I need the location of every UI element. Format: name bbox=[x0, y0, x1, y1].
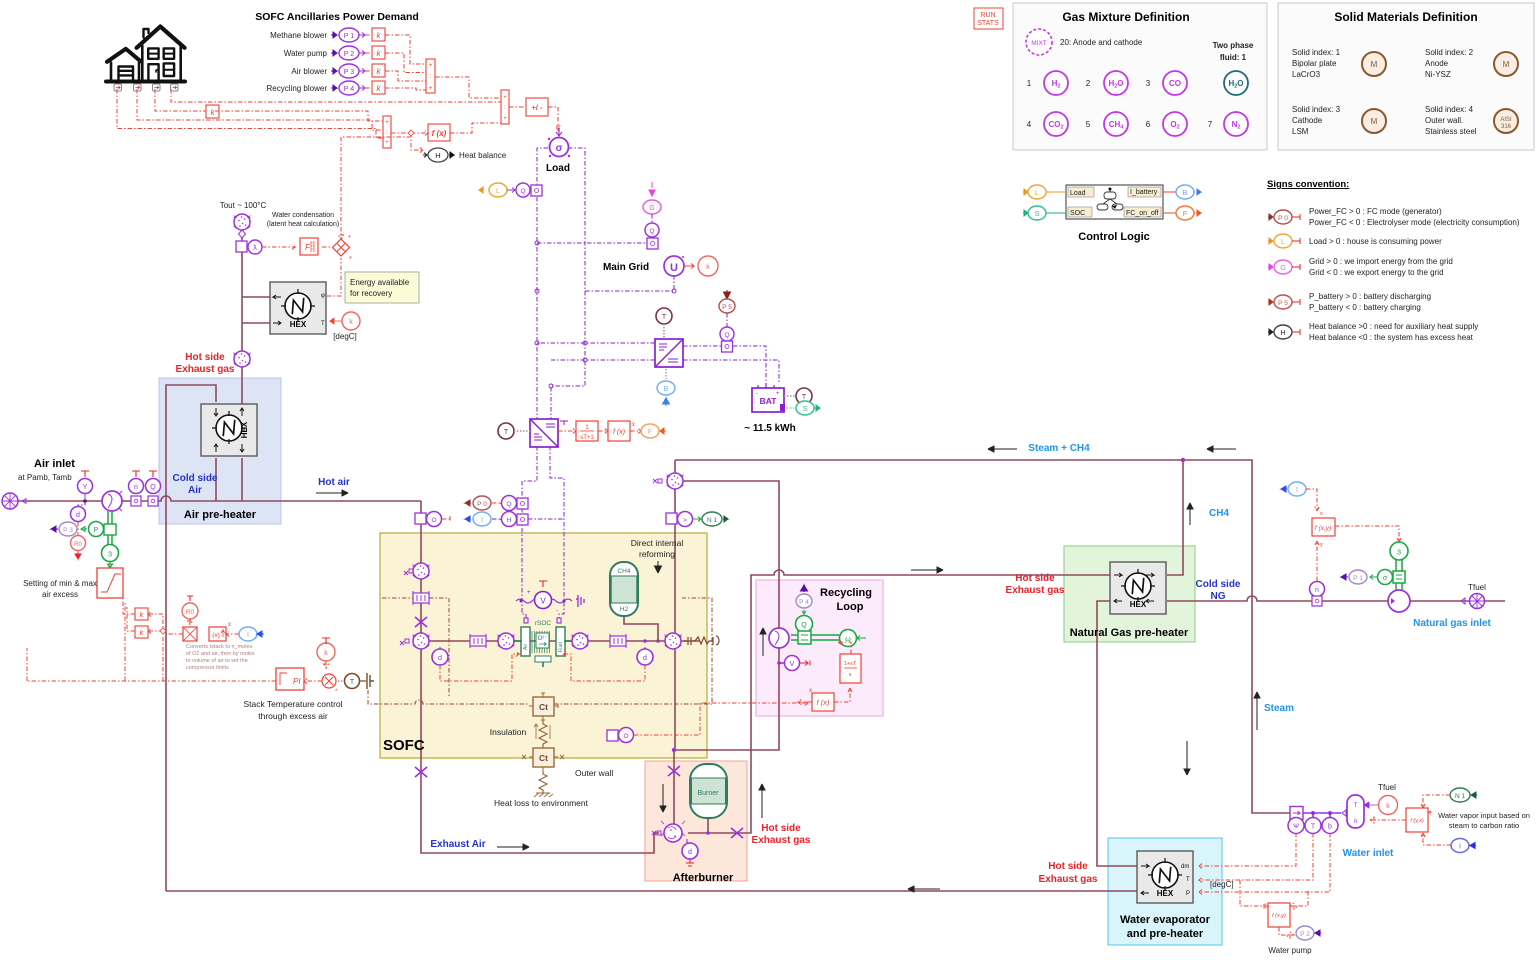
svg-text:F: F bbox=[1183, 209, 1188, 218]
heat exchanger HEX3 NG pre-heater bbox=[1110, 562, 1166, 614]
svg-text:Grid > 0 : we import energy fr: Grid > 0 : we import energy from the gri… bbox=[1309, 257, 1453, 266]
svg-text:σ: σ bbox=[556, 143, 563, 154]
wire: exhaust recovery riser x166 bbox=[166, 385, 216, 891]
green box on column bbox=[104, 524, 116, 535]
svg-text:T: T bbox=[1354, 803, 1358, 809]
svg-text:>: > bbox=[683, 517, 687, 524]
battery BAT bbox=[752, 383, 785, 412]
svg-text:HEX: HEX bbox=[290, 320, 307, 329]
n sensor bbox=[129, 471, 144, 506]
P sensor green bbox=[81, 522, 104, 537]
svg-text:x: x bbox=[1320, 511, 1323, 517]
temperature gain k degC bbox=[330, 312, 360, 330]
svg-text:AISI: AISI bbox=[1500, 117, 1512, 123]
svg-text:Insulation: Insulation bbox=[490, 727, 527, 737]
wire: load sensor row bbox=[534, 189, 537, 191]
svg-text:T: T bbox=[662, 314, 667, 321]
transfer function block bbox=[558, 421, 598, 441]
svg-text:H2: H2 bbox=[620, 606, 629, 613]
svg-text:Burner: Burner bbox=[697, 790, 719, 797]
gain k blocks row bbox=[372, 28, 385, 94]
svg-text:d: d bbox=[76, 512, 80, 519]
svg-text:STATS: STATS bbox=[977, 20, 999, 27]
svg-text:Fuel: Fuel bbox=[558, 642, 564, 652]
svg-text:Y: Y bbox=[83, 484, 88, 491]
svg-text:-: - bbox=[556, 608, 558, 614]
connector L bbox=[1023, 185, 1066, 199]
water junction box bbox=[1290, 807, 1303, 820]
svg-text:1+sT: 1+sT bbox=[844, 661, 857, 667]
svg-text:ṅ: ṅ bbox=[134, 484, 138, 491]
signal row: N1 on fuel feed bbox=[666, 512, 728, 527]
T sensor inverter1 bbox=[656, 308, 672, 339]
svg-text:f (x): f (x) bbox=[613, 429, 625, 436]
f(x) recycle bbox=[809, 688, 834, 711]
air row pipe + volume bbox=[429, 640, 700, 642]
svg-text:to volume of air to set the: to volume of air to set the bbox=[186, 658, 248, 664]
svg-text:reforming: reforming bbox=[639, 549, 675, 559]
svg-text:+/ -: +/ - bbox=[531, 103, 543, 112]
connector P2 bbox=[1296, 926, 1321, 940]
wire: fuel feed down to SOFC bbox=[675, 460, 779, 750]
NG shaft green bbox=[1396, 558, 1402, 590]
insulation resistor bbox=[534, 720, 552, 756]
sign H bbox=[1268, 325, 1300, 339]
Q sensor green bbox=[796, 616, 813, 633]
wire: final exhaust bottom line bbox=[166, 890, 1137, 892]
svg-text:Heat balance >0 : need for aux: Heat balance >0 : need for auxiliary hea… bbox=[1309, 322, 1478, 331]
svg-text:Exhaust gas: Exhaust gas bbox=[752, 835, 811, 846]
svg-text:Recycling: Recycling bbox=[820, 587, 872, 599]
wire: HEX1 heat to multiplier bbox=[322, 247, 341, 296]
svg-text:*: * bbox=[349, 256, 352, 263]
svg-text:Loop: Loop bbox=[837, 601, 864, 613]
svg-text:x: x bbox=[228, 622, 231, 628]
n sensor NG bbox=[1310, 582, 1325, 607]
svg-text:dm: dm bbox=[1181, 864, 1189, 870]
svg-text:Cathode: Cathode bbox=[1292, 116, 1323, 125]
svg-text:Hot side: Hot side bbox=[761, 823, 801, 834]
sum block 2 bbox=[501, 90, 509, 124]
rSOC stack bbox=[521, 618, 565, 667]
svg-text:Grid < 0 : we export energy to: Grid < 0 : we export energy to the grid bbox=[1309, 268, 1444, 277]
connector B I_battery bbox=[657, 369, 675, 406]
k gain blocks left bbox=[135, 608, 148, 620]
connector B bbox=[1163, 185, 1201, 199]
3 gain green bbox=[102, 545, 119, 569]
water pump f(x,y) bbox=[1268, 903, 1290, 927]
svg-text:V: V bbox=[790, 661, 795, 668]
temp sensor out box bbox=[607, 701, 808, 743]
svg-text:k: k bbox=[324, 650, 328, 657]
Load source bbox=[548, 128, 570, 157]
wire: dm T P prescriptions bbox=[1199, 833, 1330, 895]
svg-text:M: M bbox=[1371, 60, 1378, 69]
svg-text:Tfuel: Tfuel bbox=[1378, 783, 1396, 792]
svg-text:M: M bbox=[1371, 117, 1378, 126]
svg-text:6: 6 bbox=[1146, 120, 1151, 129]
svg-text:Water pump: Water pump bbox=[284, 49, 328, 58]
sign P0 bbox=[1268, 210, 1300, 224]
X valve afterburner out bbox=[731, 828, 743, 838]
svg-text:P: P bbox=[1186, 891, 1190, 897]
svg-text:P 4: P 4 bbox=[799, 599, 809, 606]
svg-text:Exhaust gas: Exhaust gas bbox=[176, 364, 235, 375]
svg-text:+: + bbox=[385, 140, 389, 146]
solid materials panel bbox=[1278, 3, 1534, 150]
svg-text:H: H bbox=[435, 151, 440, 160]
svg-text:3: 3 bbox=[108, 550, 112, 559]
wire: NG control bbox=[1306, 489, 1402, 581]
svg-text:Q: Q bbox=[724, 332, 729, 339]
k setpoint bbox=[317, 638, 335, 668]
R0 source bbox=[182, 596, 198, 625]
signal row: I / H above SOFC bbox=[465, 512, 528, 527]
CH4 reformer tank bbox=[610, 562, 638, 616]
outer wall resistor bbox=[534, 771, 553, 797]
wire: ancillaries red network bbox=[365, 35, 372, 88]
svg-text:Load: Load bbox=[546, 163, 570, 174]
svg-text:G: G bbox=[1280, 265, 1285, 272]
svg-text:f (x,y): f (x,y) bbox=[1315, 525, 1331, 532]
thermal capacitor Ct2 outer wall bbox=[522, 744, 564, 771]
svg-text:P 2: P 2 bbox=[1300, 931, 1310, 938]
X conversion block bbox=[183, 627, 197, 641]
heat balance connector H bbox=[423, 148, 454, 162]
wire: HEX2 to HEX1 vent column bbox=[242, 228, 270, 404]
wire: grid line bbox=[537, 242, 648, 244]
recycle transfer function bbox=[840, 654, 861, 683]
svg-text:f (x): f (x) bbox=[817, 698, 830, 707]
svg-text:(latent heat calculation): (latent heat calculation) bbox=[267, 221, 339, 228]
wire: steam + CH4 header bbox=[675, 460, 1290, 813]
PI controller bbox=[276, 668, 304, 690]
wire: water inlet line bbox=[1303, 812, 1341, 814]
svg-text:4: 4 bbox=[1027, 120, 1032, 129]
svg-text:Ct: Ct bbox=[539, 753, 548, 763]
heat exchanger HEX2 air pre-heater bbox=[201, 404, 257, 456]
svg-text:T: T bbox=[1311, 824, 1316, 831]
svg-text:I: I bbox=[1459, 844, 1461, 851]
connector F bbox=[1163, 206, 1201, 220]
svg-text:Q: Q bbox=[150, 484, 156, 491]
svg-text:through excess air: through excess air bbox=[258, 711, 328, 721]
svg-text:S: S bbox=[803, 406, 808, 413]
svg-text:Solid Materials Definition: Solid Materials Definition bbox=[1334, 10, 1477, 24]
svg-text:Air inlet: Air inlet bbox=[34, 458, 75, 470]
svg-text:P 3: P 3 bbox=[63, 527, 73, 534]
V sensor recycle bbox=[777, 656, 810, 671]
svg-text:*: * bbox=[348, 235, 351, 242]
junction dots bbox=[535, 188, 676, 388]
wire: NG inlet line bbox=[1167, 596, 1505, 601]
signal row: P0 / Q above SOFC bbox=[465, 496, 528, 511]
svg-text:Water pump: Water pump bbox=[1268, 946, 1312, 955]
svg-text:S: S bbox=[1034, 209, 1039, 218]
svg-text:Main Grid: Main Grid bbox=[603, 262, 649, 273]
wire: HEX3 hot out to evaporator bbox=[1097, 601, 1137, 866]
svg-text:O²⁻: O²⁻ bbox=[538, 636, 548, 642]
inverter 1 (grid) bbox=[655, 339, 683, 367]
f(x) block top bbox=[428, 124, 450, 141]
svg-text:P 4: P 4 bbox=[344, 86, 354, 93]
T sensor inverter2 bbox=[498, 423, 530, 439]
svg-text:b: b bbox=[1328, 824, 1332, 831]
svg-text:ṅ: ṅ bbox=[1315, 587, 1319, 594]
signal row: O sensor on air feed bbox=[415, 512, 450, 527]
connector N1 water bbox=[1450, 788, 1477, 802]
battery T + SOC sensors bbox=[784, 388, 812, 404]
house output connectors bbox=[114, 84, 178, 91]
svg-text:N 1: N 1 bbox=[707, 517, 718, 524]
main grid transformer U bbox=[664, 256, 684, 276]
svg-text:B: B bbox=[1182, 188, 1187, 197]
svg-text:Steam: Steam bbox=[1264, 703, 1294, 714]
svg-text:Air: Air bbox=[188, 485, 202, 496]
afterburner zone bbox=[645, 761, 747, 881]
svg-text:Ψ: Ψ bbox=[1293, 824, 1299, 831]
svg-text:+: + bbox=[429, 63, 433, 69]
water source T/n bbox=[1347, 795, 1364, 828]
sign L bbox=[1268, 234, 1300, 248]
svg-text:air excess: air excess bbox=[42, 590, 78, 599]
svg-text:s: s bbox=[849, 672, 852, 678]
svg-text:Air pre-heater: Air pre-heater bbox=[184, 509, 257, 521]
water sensors bbox=[1288, 818, 1304, 834]
MIXT circle bbox=[1026, 29, 1052, 55]
connector L row bbox=[479, 183, 542, 197]
k Tfuel gain bbox=[1364, 796, 1398, 815]
svg-text:y: y bbox=[1320, 542, 1323, 548]
svg-text:Anode: Anode bbox=[1425, 59, 1449, 68]
battery sensing column P5 bbox=[719, 290, 735, 352]
svg-text:d: d bbox=[438, 655, 442, 662]
svg-text:Heat loss to environment: Heat loss to environment bbox=[494, 798, 589, 808]
f(y,x) steam carbon block bbox=[1406, 808, 1432, 832]
svg-text:L: L bbox=[1281, 239, 1285, 246]
svg-text:R0: R0 bbox=[74, 542, 82, 548]
svg-text:O: O bbox=[623, 733, 628, 740]
svg-text:Hot side: Hot side bbox=[1015, 573, 1055, 584]
svg-text:T: T bbox=[802, 394, 807, 401]
svg-text:Two phase: Two phase bbox=[1213, 41, 1254, 50]
svg-text:Setting of min & max: Setting of min & max bbox=[23, 579, 97, 588]
svg-text:Load > 0 : house is consuming: Load > 0 : house is consuming power bbox=[1309, 237, 1442, 246]
temp compare X bbox=[304, 674, 338, 695]
svg-text:MIXT: MIXT bbox=[1031, 40, 1047, 47]
svg-text:Solid index: 2: Solid index: 2 bbox=[1425, 48, 1474, 57]
svg-text:Water inlet: Water inlet bbox=[1343, 848, 1394, 859]
svg-text:R0: R0 bbox=[186, 609, 195, 616]
wire: DC bus left bbox=[537, 148, 585, 419]
svg-text:Air blower: Air blower bbox=[291, 67, 327, 76]
svg-text:G: G bbox=[649, 205, 654, 212]
connector P1 bbox=[331, 28, 365, 42]
svg-text:P 3: P 3 bbox=[344, 69, 354, 76]
svg-text:P 1: P 1 bbox=[344, 33, 354, 40]
svg-text:RUN: RUN bbox=[980, 12, 995, 19]
sum block 1 bbox=[426, 59, 435, 93]
svg-text:F: F bbox=[648, 429, 652, 436]
svg-text:I: I bbox=[481, 517, 483, 524]
wire: recycle control bbox=[798, 640, 853, 705]
multiplier X bbox=[333, 235, 353, 263]
X valve below SOFC left bbox=[415, 767, 427, 777]
svg-text:Q: Q bbox=[649, 228, 654, 235]
NG blower bbox=[1388, 590, 1410, 612]
svg-text:P 0: P 0 bbox=[1278, 215, 1288, 222]
svg-text:Water vapor input based on: Water vapor input based on bbox=[1438, 811, 1530, 820]
SOFC zone bbox=[380, 533, 707, 758]
compressor power sensing green bbox=[108, 511, 112, 555]
svg-text:316: 316 bbox=[1501, 124, 1512, 130]
svg-text:Solid index: 1: Solid index: 1 bbox=[1292, 48, 1341, 57]
RUN STATS bbox=[974, 8, 1003, 29]
svg-text:BAT: BAT bbox=[760, 396, 778, 406]
wire: CH4 tank stem bbox=[624, 616, 658, 641]
svg-text:k: k bbox=[349, 319, 353, 326]
svg-text:Recycling blower: Recycling blower bbox=[267, 84, 328, 93]
svg-text:+: + bbox=[385, 120, 389, 126]
F condensation block bbox=[300, 238, 318, 255]
ambient air fan bbox=[2, 493, 26, 509]
wire: inverter1 to battery bbox=[683, 346, 779, 384]
wire: inverter1 left ports bbox=[537, 343, 655, 360]
house icon bbox=[106, 27, 185, 82]
svg-text:P 5: P 5 bbox=[722, 304, 732, 311]
svg-text:Heat balance <0 : the system h: Heat balance <0 : the system has excess … bbox=[1309, 333, 1474, 342]
svg-text:f (x,y): f (x,y) bbox=[1272, 913, 1286, 919]
heat exchanger HEX4 water evaporator bbox=[1137, 851, 1234, 903]
svg-text:HEX: HEX bbox=[1157, 889, 1174, 898]
svg-text:I: I bbox=[247, 632, 249, 639]
svg-text:Water evaporator: Water evaporator bbox=[1120, 914, 1211, 926]
svg-text:H: H bbox=[1280, 330, 1285, 337]
wire: saturation outputs bbox=[123, 598, 135, 631]
air channel column components bbox=[413, 563, 430, 579]
svg-text:k: k bbox=[706, 264, 710, 271]
svg-text:compressor limits: compressor limits bbox=[186, 665, 229, 671]
saturation block bbox=[97, 568, 123, 598]
shaft green bbox=[791, 635, 839, 640]
svg-text:Converts Istack to n_moles: Converts Istack to n_moles bbox=[186, 644, 253, 650]
d sensor afterburner bbox=[682, 839, 698, 866]
svg-text:x: x bbox=[809, 688, 812, 694]
svg-text:+: + bbox=[527, 590, 531, 596]
svg-text:B: B bbox=[664, 386, 669, 393]
flow arrow afterburner bbox=[660, 784, 666, 812]
svg-text:O: O bbox=[431, 517, 436, 524]
svg-text:L: L bbox=[1035, 188, 1039, 197]
svg-text:P 0: P 0 bbox=[477, 501, 487, 508]
natural gas pre-heater zone bbox=[1064, 546, 1195, 642]
connector P1 NG bbox=[1341, 570, 1367, 584]
svg-text:Gas Mixture Definition: Gas Mixture Definition bbox=[1062, 10, 1189, 24]
svg-text:k: k bbox=[1386, 803, 1390, 810]
svg-text:Signs convention:: Signs convention: bbox=[1267, 179, 1349, 190]
svg-text:H: H bbox=[507, 517, 512, 524]
thermal bus dash bbox=[368, 598, 712, 704]
exhaust spring restriction bbox=[683, 636, 719, 645]
sign G bbox=[1268, 260, 1300, 274]
connector P4 bbox=[331, 81, 365, 95]
energy note bbox=[345, 272, 419, 303]
svg-text:20: Anode and cathode: 20: Anode and cathode bbox=[1060, 38, 1143, 47]
svg-text:I: I bbox=[1296, 487, 1298, 494]
svg-text:and pre-heater: and pre-heater bbox=[1127, 928, 1204, 940]
svg-text:2: 2 bbox=[1086, 79, 1091, 88]
svg-text:Ct: Ct bbox=[539, 702, 548, 712]
svg-text:P_battery > 0 : battery discha: P_battery > 0 : battery discharging bbox=[1309, 292, 1431, 301]
thermal capacitor Ct1 bbox=[529, 693, 558, 720]
svg-text:[degC]: [degC] bbox=[1210, 880, 1234, 889]
sigma sensor bbox=[1370, 570, 1393, 585]
svg-text:3: 3 bbox=[1397, 548, 1401, 557]
connector P2 bbox=[331, 46, 365, 60]
svg-text:Tout ~ 100°C: Tout ~ 100°C bbox=[220, 201, 267, 210]
grid connector G column bbox=[643, 182, 661, 249]
wire: CH4 riser bbox=[1167, 460, 1183, 575]
svg-text:HEX: HEX bbox=[240, 421, 249, 438]
svg-text:T: T bbox=[321, 321, 325, 327]
connector S bbox=[1023, 206, 1066, 220]
svg-text:V: V bbox=[540, 597, 546, 606]
svg-text:T: T bbox=[504, 429, 509, 436]
svg-text:Outer wall: Outer wall bbox=[575, 768, 613, 778]
svg-text:Air: Air bbox=[523, 644, 529, 650]
svg-text:ƛ: ƛ bbox=[253, 245, 257, 252]
svg-text:f (y,x): f (y,x) bbox=[1410, 818, 1424, 824]
svg-text:7: 7 bbox=[1208, 120, 1213, 129]
X valve afterburner in bbox=[668, 766, 680, 776]
svg-text:Methane blower: Methane blower bbox=[270, 31, 327, 40]
plus/minus block bbox=[526, 98, 548, 116]
svg-text:Natural Gas pre-heater: Natural Gas pre-heater bbox=[1070, 627, 1189, 639]
svg-text:Exhaust gas: Exhaust gas bbox=[1039, 874, 1098, 885]
svg-text:U: U bbox=[670, 262, 678, 274]
control logic block bbox=[1066, 185, 1163, 219]
svg-text:Stainless steel: Stainless steel bbox=[1425, 127, 1477, 136]
svg-text:SOFC: SOFC bbox=[383, 737, 425, 754]
svg-text:Power_FC < 0 : Electrolyser mo: Power_FC < 0 : Electrolyser mode (electr… bbox=[1309, 218, 1520, 227]
NG source diamond + fan bbox=[1461, 594, 1485, 609]
wire: feedback loop bottom bbox=[27, 602, 276, 681]
flow arrow recycling bbox=[760, 628, 766, 656]
svg-text:P 5: P 5 bbox=[1278, 300, 1288, 307]
wire: HEX2 port stubs bbox=[216, 458, 242, 501]
svg-text:I_battery: I_battery bbox=[1130, 189, 1158, 196]
svg-text:CH4: CH4 bbox=[1209, 508, 1229, 519]
exhaust volume on vent column bbox=[234, 351, 251, 367]
svg-text:Q: Q bbox=[801, 622, 807, 629]
svg-text:Q: Q bbox=[520, 188, 525, 195]
svg-text:Ni-YSZ: Ni-YSZ bbox=[1425, 70, 1451, 79]
svg-text:Direct internal: Direct internal bbox=[631, 538, 684, 548]
svg-text:Cold side: Cold side bbox=[172, 473, 217, 484]
svg-text:CO: CO bbox=[1169, 79, 1181, 88]
svg-text:f (x): f (x) bbox=[432, 129, 447, 138]
svg-text:P_battery < 0 : battery chargi: P_battery < 0 : battery charging bbox=[1309, 303, 1421, 312]
afterburner mixer bbox=[652, 821, 685, 842]
wire: air down through SOFC / exhaust air bbox=[421, 501, 659, 853]
svg-text:Load: Load bbox=[1070, 190, 1086, 197]
svg-text:Heat balance: Heat balance bbox=[459, 151, 507, 160]
svg-text:SOFC Ancillaries Power Demand: SOFC Ancillaries Power Demand bbox=[255, 11, 419, 23]
connector F in bbox=[630, 424, 666, 438]
svg-text:Exhaust Air: Exhaust Air bbox=[430, 839, 485, 850]
air excess sensors d/R0 bbox=[71, 501, 86, 559]
svg-text:~ 11.5 kWh: ~ 11.5 kWh bbox=[744, 423, 795, 434]
